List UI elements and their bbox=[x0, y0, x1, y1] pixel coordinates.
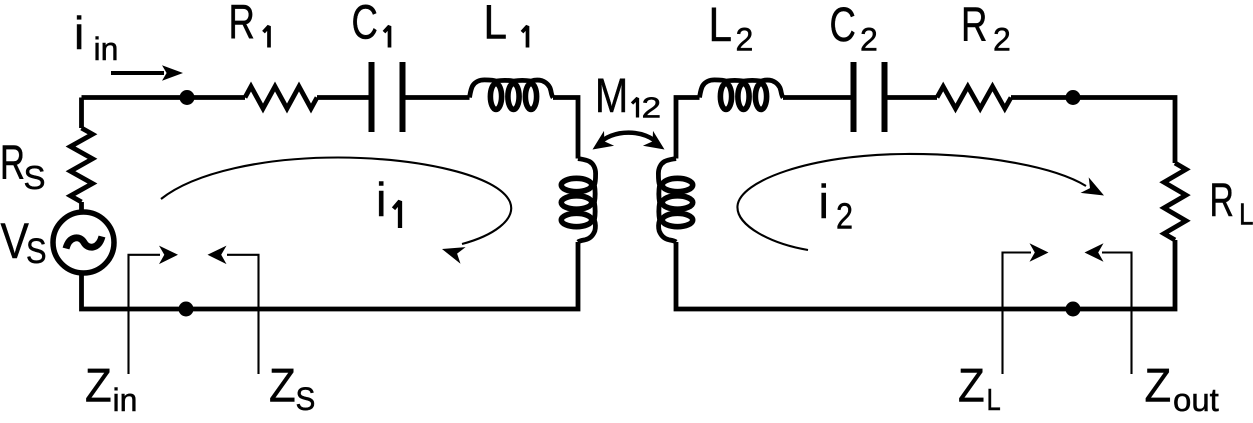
svg-text:i: i bbox=[74, 7, 84, 59]
svg-text:S: S bbox=[24, 159, 46, 196]
svg-text:2: 2 bbox=[993, 22, 1011, 58]
svg-text:L: L bbox=[987, 383, 1001, 417]
svg-text:Z: Z bbox=[958, 359, 985, 412]
svg-text:L: L bbox=[709, 0, 732, 52]
svg-text:R: R bbox=[961, 0, 987, 52]
svg-text:V: V bbox=[1, 213, 29, 269]
svg-text:2: 2 bbox=[836, 197, 853, 237]
svg-text:Z: Z bbox=[85, 359, 112, 412]
svg-text:2: 2 bbox=[860, 22, 878, 58]
svg-text:R: R bbox=[0, 135, 25, 189]
svg-text:Z: Z bbox=[1145, 359, 1172, 412]
svg-text:L: L bbox=[484, 0, 507, 49]
svg-text:i: i bbox=[376, 173, 386, 226]
svg-text:S: S bbox=[296, 381, 316, 417]
svg-text:i: i bbox=[819, 175, 829, 228]
svg-text:M: M bbox=[595, 70, 628, 123]
svg-text:R: R bbox=[229, 0, 255, 50]
svg-text:in: in bbox=[113, 382, 138, 418]
svg-text:S: S bbox=[26, 231, 47, 270]
svg-text:C: C bbox=[352, 0, 378, 50]
svg-text:2: 2 bbox=[642, 92, 662, 124]
svg-text:C: C bbox=[830, 0, 856, 52]
svg-text:L: L bbox=[1239, 197, 1253, 232]
svg-text:in: in bbox=[94, 31, 119, 67]
svg-text:out: out bbox=[1173, 382, 1219, 417]
svg-text:R: R bbox=[1210, 174, 1234, 227]
svg-text:2: 2 bbox=[736, 22, 754, 58]
svg-text:Z: Z bbox=[269, 359, 296, 412]
